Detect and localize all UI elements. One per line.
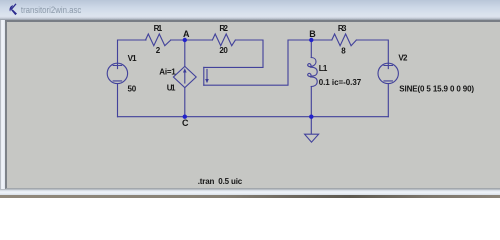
svg-text:20: 20: [219, 46, 228, 55]
LTspice icon: [0, 0, 30, 19]
window frame bottom: [0, 189, 500, 195]
U1 current sense arrow: [206, 69, 208, 81]
svg-text:50: 50: [128, 85, 137, 94]
wire node A down to U1: [184, 40, 186, 66]
svg-text:SINE(0 5 15.9 0 0 90): SINE(0 5 15.9 0 0 90): [399, 85, 474, 94]
svg-text:R3: R3: [338, 24, 347, 33]
resistor R3: [332, 34, 357, 46]
title text: [0, 0, 120, 19]
schematic canvas: [5, 20, 500, 190]
dependent source U1 diamond: [173, 66, 196, 87]
svg-text:2: 2: [156, 46, 161, 55]
svg-text:R1: R1: [154, 24, 163, 33]
svg-text:V1: V1: [128, 54, 138, 63]
wire V2 bottom to bottom rail: [387, 84, 389, 117]
voltage source V1: [107, 63, 127, 83]
wire V1 bottom: [117, 84, 119, 117]
wire node B to R3: [311, 39, 332, 41]
voltage source V2: [378, 63, 398, 83]
wire top-left V1 to R1: [118, 40, 147, 69]
svg-text:L1: L1: [319, 64, 328, 73]
svg-text:0.1 ic=-0.37: 0.1 ic=-0.37: [319, 78, 362, 87]
svg-text:8: 8: [341, 46, 346, 55]
wire node B down to L1: [310, 40, 312, 58]
wire bottom rail: [118, 116, 389, 118]
wire R2 to sense loop corner: [204, 40, 263, 67]
svg-text:R2: R2: [219, 24, 228, 33]
node A junction dot: [183, 38, 187, 42]
svg-text:V2: V2: [398, 53, 408, 62]
wire U1 to node C: [184, 88, 186, 117]
svg-text:A: A: [183, 29, 190, 39]
wire R1 to R2 through node A: [171, 39, 213, 41]
window frame left: [0, 20, 6, 196]
U1 arrow: [184, 71, 186, 84]
wire L1 to ground junction: [310, 87, 312, 117]
ground junction dot: [309, 115, 313, 119]
desktop strip: [0, 195, 500, 199]
title bar: [0, 0, 500, 20]
inductor L1: [308, 58, 318, 87]
wire sense loop bottom to node B: [204, 40, 311, 85]
node C junction dot: [183, 115, 187, 119]
svg-text:B: B: [309, 29, 316, 39]
wire sense left side: [203, 67, 205, 85]
wire R3 to V2: [356, 40, 388, 69]
resistor R2: [212, 34, 235, 46]
svg-text:U1: U1: [167, 84, 176, 93]
svg-text:Ai=1: Ai=1: [159, 67, 176, 76]
node B junction dot: [309, 38, 313, 42]
ground: [305, 117, 319, 143]
svg-text:C: C: [182, 118, 189, 128]
svg-text:.tran 0.5 uic: .tran 0.5 uic: [198, 177, 243, 186]
resistor R1: [146, 34, 171, 46]
